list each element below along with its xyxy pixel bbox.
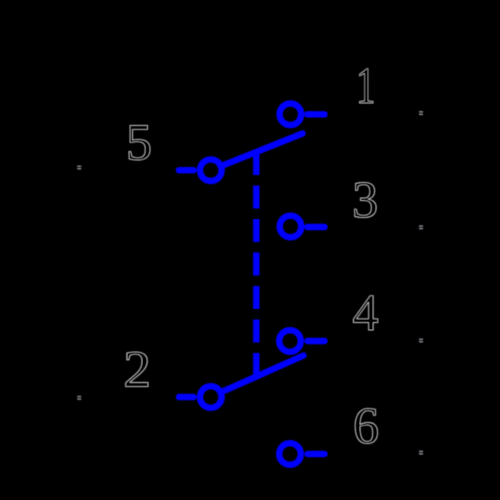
svg-text:6: 6 bbox=[353, 398, 379, 455]
svg-text:2: 2 bbox=[123, 340, 151, 398]
svg-text:3: 3 bbox=[352, 172, 378, 229]
svg-text:5: 5 bbox=[126, 115, 152, 172]
svg-text:1: 1 bbox=[356, 56, 375, 114]
svg-text:4: 4 bbox=[353, 285, 379, 342]
